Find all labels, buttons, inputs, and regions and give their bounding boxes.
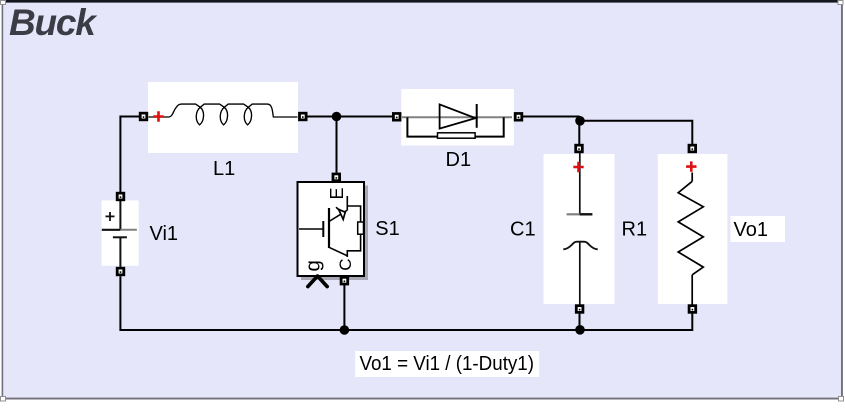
svg-text:g: g [301, 260, 324, 271]
svg-text:Vi1: Vi1 [150, 223, 179, 245]
svg-text:L1: L1 [213, 158, 235, 180]
svg-text:Buck: Buck [9, 2, 98, 43]
svg-text:C: C [336, 258, 355, 270]
svg-text:C1: C1 [510, 218, 536, 240]
svg-text:D1: D1 [446, 149, 472, 171]
svg-text:Vo1: Vo1 [734, 219, 768, 241]
svg-text:R1: R1 [622, 218, 648, 240]
svg-text:Vo1 = Vi1 / (1-Duty1): Vo1 = Vi1 / (1-Duty1) [360, 353, 535, 375]
svg-text:S1: S1 [375, 218, 399, 240]
svg-text:E: E [327, 187, 347, 199]
